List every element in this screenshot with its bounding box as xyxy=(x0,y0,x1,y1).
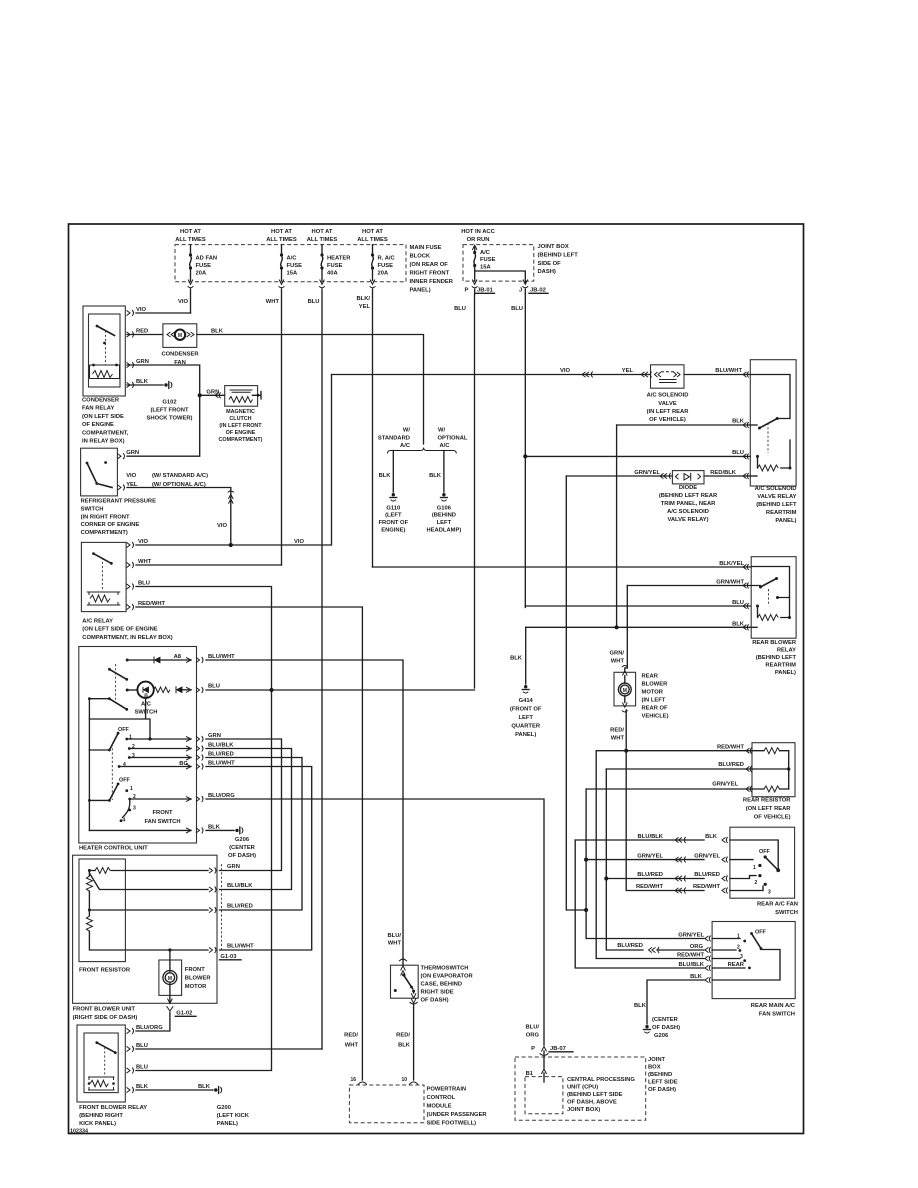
svg-text:MOTOR: MOTOR xyxy=(185,984,207,990)
svg-text:4: 4 xyxy=(123,818,126,824)
svg-text:OF DASH): OF DASH) xyxy=(652,1025,680,1031)
svg-text:BLOWER: BLOWER xyxy=(185,976,212,982)
svg-text:OFF: OFF xyxy=(759,849,770,855)
svg-text:FUSE: FUSE xyxy=(287,263,303,269)
svg-text:BLK: BLK xyxy=(136,379,149,385)
svg-text:REAR RESISTOR: REAR RESISTOR xyxy=(743,798,791,804)
svg-text:102334: 102334 xyxy=(70,1129,88,1135)
svg-text:A/C: A/C xyxy=(440,443,451,449)
svg-text:VALVE RELAY): VALVE RELAY) xyxy=(667,517,708,523)
svg-text:BLU: BLU xyxy=(138,581,150,587)
svg-text:FAN SWITCH: FAN SWITCH xyxy=(144,819,180,825)
svg-text:J: J xyxy=(519,288,522,294)
svg-text:FRONT: FRONT xyxy=(185,967,205,973)
svg-text:BLU: BLU xyxy=(308,299,320,305)
svg-text:VIO: VIO xyxy=(126,473,136,479)
svg-text:BLK/YEL: BLK/YEL xyxy=(719,561,744,567)
svg-text:JOINT BOX: JOINT BOX xyxy=(538,244,569,250)
svg-text:REAR: REAR xyxy=(728,962,745,968)
svg-text:GRN: GRN xyxy=(126,450,139,456)
svg-text:1: 1 xyxy=(130,786,133,792)
svg-text:BLK: BLK xyxy=(398,1043,411,1049)
svg-text:HOT AT: HOT AT xyxy=(180,229,201,235)
svg-text:WHT: WHT xyxy=(138,559,152,565)
svg-text:(ON EVAPORATOR: (ON EVAPORATOR xyxy=(421,974,474,980)
svg-text:G206: G206 xyxy=(654,1033,669,1039)
svg-text:ALL TIMES: ALL TIMES xyxy=(175,237,206,243)
svg-text:VIO: VIO xyxy=(138,539,148,545)
svg-text:FAN RELAY: FAN RELAY xyxy=(82,406,114,412)
svg-text:WHT: WHT xyxy=(345,1043,359,1049)
svg-text:A8: A8 xyxy=(174,654,182,660)
svg-text:FUSE: FUSE xyxy=(378,263,394,269)
svg-text:RIGHT FRONT: RIGHT FRONT xyxy=(410,271,450,277)
svg-text:(BEHIND LEFT: (BEHIND LEFT xyxy=(756,502,797,508)
svg-text:CLUTCH: CLUTCH xyxy=(229,416,251,422)
svg-text:(CENTER: (CENTER xyxy=(652,1017,679,1023)
svg-text:FRONT RESISTOR: FRONT RESISTOR xyxy=(79,968,131,974)
svg-text:GRN/YEL: GRN/YEL xyxy=(694,854,720,860)
svg-text:CORNER OF ENGINE: CORNER OF ENGINE xyxy=(81,522,140,528)
svg-text:SWITCH: SWITCH xyxy=(135,710,158,716)
svg-text:(LEFT FRONT: (LEFT FRONT xyxy=(151,408,189,414)
svg-text:15A: 15A xyxy=(287,270,298,276)
svg-text:COMPARTMENT, IN RELAY BOX): COMPARTMENT, IN RELAY BOX) xyxy=(82,635,172,641)
svg-text:(IN LEFT: (IN LEFT xyxy=(642,698,666,704)
svg-text:CONTROL: CONTROL xyxy=(427,1095,456,1101)
svg-text:VEHICLE): VEHICLE) xyxy=(642,714,669,720)
svg-text:G206: G206 xyxy=(235,837,250,843)
svg-text:SIDE FOOTWELL): SIDE FOOTWELL) xyxy=(427,1121,477,1127)
svg-text:LEFT SIDE: LEFT SIDE xyxy=(648,1080,678,1086)
svg-text:RED/WHT: RED/WHT xyxy=(636,884,664,890)
svg-text:PANEL): PANEL) xyxy=(217,1121,238,1127)
svg-text:(RIGHT SIDE OF DASH): (RIGHT SIDE OF DASH) xyxy=(73,1015,138,1021)
svg-text:FUSE: FUSE xyxy=(480,257,496,263)
svg-text:BLU: BLU xyxy=(511,306,523,312)
svg-text:WHT: WHT xyxy=(388,941,402,947)
svg-text:BLK: BLK xyxy=(136,1084,149,1090)
svg-text:R. A/C: R. A/C xyxy=(378,256,396,262)
svg-text:(BEHIND: (BEHIND xyxy=(432,513,456,519)
svg-text:BLU: BLU xyxy=(732,600,744,606)
svg-text:HOT AT: HOT AT xyxy=(271,229,292,235)
svg-text:TRIM PANEL, NEAR: TRIM PANEL, NEAR xyxy=(661,501,716,507)
svg-text:RED/WHT: RED/WHT xyxy=(693,884,721,890)
svg-text:REAR A/C FAN: REAR A/C FAN xyxy=(757,902,798,908)
svg-text:BLU/: BLU/ xyxy=(525,1025,539,1031)
svg-text:RED/: RED/ xyxy=(396,1033,410,1039)
svg-text:BOX: BOX xyxy=(648,1065,661,1071)
svg-text:QUARTER: QUARTER xyxy=(511,724,540,730)
svg-text:CENTRAL PROCESSING: CENTRAL PROCESSING xyxy=(567,1077,635,1083)
svg-text:BLU/WHT: BLU/WHT xyxy=(715,368,742,374)
svg-text:10: 10 xyxy=(401,1077,407,1083)
svg-text:BLK/: BLK/ xyxy=(356,296,370,302)
svg-text:COMPARTMENT,: COMPARTMENT, xyxy=(82,430,129,436)
svg-text:3: 3 xyxy=(132,753,135,759)
svg-text:MAIN FUSE: MAIN FUSE xyxy=(410,245,442,251)
svg-text:VALVE RELAY: VALVE RELAY xyxy=(757,494,796,500)
svg-text:(ON LEFT REAR: (ON LEFT REAR xyxy=(746,806,792,812)
svg-text:(BEHIND LEFT: (BEHIND LEFT xyxy=(756,655,797,661)
svg-text:FAN SWITCH: FAN SWITCH xyxy=(759,1012,795,1018)
svg-text:BLU/WHT: BLU/WHT xyxy=(208,761,235,767)
svg-text:IN RELAY BOX): IN RELAY BOX) xyxy=(82,439,125,445)
svg-text:BLU/BLK: BLU/BLK xyxy=(227,883,253,889)
svg-text:HOT AT: HOT AT xyxy=(312,229,333,235)
svg-text:OF VEHICLE): OF VEHICLE) xyxy=(649,417,686,423)
svg-text:PANEL): PANEL) xyxy=(515,732,536,738)
svg-text:BLU: BLU xyxy=(732,450,744,456)
svg-text:(LEFT: (LEFT xyxy=(385,513,402,519)
svg-text:BLU/RED: BLU/RED xyxy=(637,872,663,878)
svg-text:BLU/WHT: BLU/WHT xyxy=(208,654,235,660)
svg-text:GRN/YEL: GRN/YEL xyxy=(637,854,663,860)
svg-text:ALL TIMES: ALL TIMES xyxy=(307,237,338,243)
svg-text:15A: 15A xyxy=(480,265,491,271)
svg-text:GRN: GRN xyxy=(136,359,149,365)
svg-text:OF DASH): OF DASH) xyxy=(421,998,449,1004)
svg-text:HEADLAMP): HEADLAMP) xyxy=(427,528,462,534)
svg-text:DIODE: DIODE xyxy=(679,485,697,491)
svg-text:BLK: BLK xyxy=(705,834,718,840)
svg-text:G106: G106 xyxy=(437,506,452,512)
svg-text:20A: 20A xyxy=(378,270,389,276)
svg-text:A/C RELAY: A/C RELAY xyxy=(82,619,113,625)
svg-text:BLU/RED: BLU/RED xyxy=(227,904,253,910)
svg-text:OF DASH, ABOVE: OF DASH, ABOVE xyxy=(567,1100,617,1106)
svg-text:ALL TIMES: ALL TIMES xyxy=(357,237,388,243)
svg-text:ORG: ORG xyxy=(690,944,704,950)
svg-text:W/: W/ xyxy=(403,428,410,434)
svg-text:BLU/BLK: BLU/BLK xyxy=(208,743,234,749)
svg-text:MODULE: MODULE xyxy=(427,1104,452,1110)
svg-text:OFF: OFF xyxy=(118,727,129,733)
svg-text:UNIT (CPU): UNIT (CPU) xyxy=(567,1085,598,1091)
svg-text:YEL: YEL xyxy=(126,482,138,488)
svg-text:(UNDER PASSENGER: (UNDER PASSENGER xyxy=(427,1112,488,1118)
svg-text:1: 1 xyxy=(753,865,756,871)
svg-text:(BEHIND LEFT REAR: (BEHIND LEFT REAR xyxy=(659,493,718,499)
svg-text:(ON LEFT SIDE OF ENGINE: (ON LEFT SIDE OF ENGINE xyxy=(82,627,157,633)
svg-text:(W/ OPTIONAL A/C): (W/ OPTIONAL A/C) xyxy=(152,482,206,488)
svg-text:(LEFT KICK: (LEFT KICK xyxy=(217,1113,250,1119)
svg-text:YEL: YEL xyxy=(622,368,634,374)
svg-text:PANEL): PANEL) xyxy=(410,288,431,294)
svg-text:3: 3 xyxy=(768,890,771,896)
svg-text:MAGNETIC: MAGNETIC xyxy=(226,409,255,415)
svg-text:RELAY: RELAY xyxy=(777,648,796,654)
svg-text:40A: 40A xyxy=(327,270,338,276)
svg-text:(W/ STANDARD A/C): (W/ STANDARD A/C) xyxy=(152,473,208,479)
svg-text:BLU/ORG: BLU/ORG xyxy=(208,793,235,799)
svg-text:RED/BLK: RED/BLK xyxy=(710,470,737,476)
svg-text:CONDENSER: CONDENSER xyxy=(82,398,120,404)
svg-text:CONDENSER: CONDENSER xyxy=(161,352,199,358)
svg-text:(ON LEFT SIDE: (ON LEFT SIDE xyxy=(82,414,124,420)
svg-text:2: 2 xyxy=(755,880,758,886)
svg-text:2: 2 xyxy=(132,744,135,750)
svg-text:W/: W/ xyxy=(438,428,445,434)
svg-text:FRONT OF: FRONT OF xyxy=(378,520,408,526)
svg-text:JB-02: JB-02 xyxy=(530,288,546,294)
svg-text:16: 16 xyxy=(350,1077,356,1083)
svg-text:WHT: WHT xyxy=(611,659,625,665)
svg-text:M: M xyxy=(168,976,172,982)
svg-text:ALL TIMES: ALL TIMES xyxy=(266,237,297,243)
svg-text:BLU: BLU xyxy=(208,684,220,690)
svg-text:COMPARTMENT): COMPARTMENT) xyxy=(219,437,263,443)
svg-text:INNER FENDER: INNER FENDER xyxy=(410,279,454,285)
svg-text:BLK: BLK xyxy=(690,974,703,980)
svg-text:FRONT: FRONT xyxy=(153,810,173,816)
svg-text:POWERTRAIN: POWERTRAIN xyxy=(427,1087,467,1093)
svg-text:CASE, BEHIND: CASE, BEHIND xyxy=(421,982,463,988)
svg-text:HOT AT: HOT AT xyxy=(362,229,383,235)
svg-text:REARTRIM: REARTRIM xyxy=(765,663,796,669)
svg-text:GRN/: GRN/ xyxy=(610,651,625,657)
svg-text:PANEL): PANEL) xyxy=(775,670,796,676)
svg-text:YEL: YEL xyxy=(359,304,371,310)
svg-text:BLU/: BLU/ xyxy=(387,933,401,939)
svg-text:OF VEHICLE): OF VEHICLE) xyxy=(754,815,791,821)
svg-text:A/C: A/C xyxy=(287,256,298,262)
svg-text:BLK: BLK xyxy=(211,329,224,335)
svg-text:RED/WHT: RED/WHT xyxy=(717,745,745,751)
svg-text:BLK: BLK xyxy=(379,473,392,479)
svg-text:G102: G102 xyxy=(162,400,176,406)
svg-text:RED: RED xyxy=(136,329,148,335)
svg-text:BLOWER: BLOWER xyxy=(642,682,669,688)
svg-text:A/C: A/C xyxy=(400,443,411,449)
svg-text:BLU: BLU xyxy=(136,1065,148,1071)
svg-text:BLK: BLK xyxy=(208,825,221,831)
svg-text:BLU: BLU xyxy=(454,306,466,312)
svg-text:BG: BG xyxy=(179,761,188,767)
svg-text:STANDARD: STANDARD xyxy=(378,435,410,441)
svg-text:SWITCH: SWITCH xyxy=(775,910,798,916)
svg-text:BLK: BLK xyxy=(510,656,523,662)
svg-text:BLU/RED: BLU/RED xyxy=(208,752,234,758)
svg-text:FAN: FAN xyxy=(174,360,186,366)
svg-text:OPTIONAL: OPTIONAL xyxy=(438,435,468,441)
svg-text:GRN/YEL: GRN/YEL xyxy=(678,933,704,939)
svg-text:AD FAN: AD FAN xyxy=(196,256,218,262)
svg-text:REAR OF: REAR OF xyxy=(642,706,669,712)
svg-text:SHOCK TOWER): SHOCK TOWER) xyxy=(147,416,193,422)
svg-text:OF DASH): OF DASH) xyxy=(648,1087,676,1093)
svg-text:GRN/YEL: GRN/YEL xyxy=(712,782,738,788)
svg-text:BLK: BLK xyxy=(732,622,745,628)
svg-text:2: 2 xyxy=(737,945,740,951)
svg-text:M: M xyxy=(623,688,627,694)
svg-text:3: 3 xyxy=(740,954,743,960)
svg-text:BLU: BLU xyxy=(136,1043,148,1049)
svg-text:BLU/BLK: BLU/BLK xyxy=(638,834,664,840)
svg-text:OFF: OFF xyxy=(755,930,766,936)
svg-text:REFRIGERANT PRESSURE: REFRIGERANT PRESSURE xyxy=(81,499,157,505)
svg-text:OFF: OFF xyxy=(119,778,130,784)
svg-text:(FRONT OF: (FRONT OF xyxy=(510,707,542,713)
svg-text:LEFT: LEFT xyxy=(437,520,452,526)
svg-text:(IN LEFT REAR: (IN LEFT REAR xyxy=(647,409,690,415)
svg-text:1: 1 xyxy=(129,735,132,741)
svg-text:FUSE: FUSE xyxy=(327,263,343,269)
svg-text:G414: G414 xyxy=(519,698,534,704)
svg-text:3: 3 xyxy=(133,806,136,812)
svg-text:(ON REAR OF: (ON REAR OF xyxy=(410,262,449,268)
svg-text:BLU/ORG: BLU/ORG xyxy=(136,1025,163,1031)
svg-text:GRN/WHT: GRN/WHT xyxy=(716,580,744,586)
svg-text:REAR: REAR xyxy=(642,674,659,680)
svg-text:A/C SOLENOID: A/C SOLENOID xyxy=(667,509,709,515)
svg-text:COMPARTMENT): COMPARTMENT) xyxy=(81,530,128,536)
svg-text:JOINT BOX): JOINT BOX) xyxy=(567,1107,600,1113)
svg-text:THERMOSWITCH: THERMOSWITCH xyxy=(421,966,469,972)
svg-text:DASH): DASH) xyxy=(538,269,556,275)
svg-text:FRONT BLOWER UNIT: FRONT BLOWER UNIT xyxy=(73,1007,136,1013)
svg-text:GRN: GRN xyxy=(208,733,221,739)
svg-text:FRONT BLOWER RELAY: FRONT BLOWER RELAY xyxy=(79,1105,147,1111)
svg-text:A/C: A/C xyxy=(480,250,491,256)
svg-text:BLOCK: BLOCK xyxy=(410,254,431,260)
svg-text:SWITCH: SWITCH xyxy=(81,506,104,512)
svg-text:VALVE: VALVE xyxy=(658,401,677,407)
svg-text:BLU/RED: BLU/RED xyxy=(617,943,643,949)
svg-text:ENGINE): ENGINE) xyxy=(381,528,405,534)
svg-text:BLK: BLK xyxy=(198,1084,211,1090)
svg-text:(BEHIND LEFT SIDE: (BEHIND LEFT SIDE xyxy=(567,1092,623,1098)
svg-text:(IN RIGHT FRONT: (IN RIGHT FRONT xyxy=(81,514,130,520)
svg-text:4: 4 xyxy=(123,762,126,768)
svg-text:GRN: GRN xyxy=(227,864,240,870)
svg-text:P: P xyxy=(531,1046,535,1052)
svg-text:A/C: A/C xyxy=(141,702,152,708)
svg-text:G1-03: G1-03 xyxy=(220,954,237,960)
svg-text:BLU/RED: BLU/RED xyxy=(694,872,720,878)
svg-text:JB-07: JB-07 xyxy=(550,1046,566,1052)
svg-text:FUSE: FUSE xyxy=(196,263,212,269)
svg-text:20A: 20A xyxy=(196,270,207,276)
svg-text:PANEL): PANEL) xyxy=(775,518,796,524)
svg-text:OF ENGINE: OF ENGINE xyxy=(226,430,256,436)
svg-text:2: 2 xyxy=(133,794,136,800)
svg-text:VIO: VIO xyxy=(136,307,146,313)
svg-text:BLK: BLK xyxy=(634,1003,647,1009)
svg-text:(BEHIND RIGHT: (BEHIND RIGHT xyxy=(79,1113,123,1119)
svg-text:WHT: WHT xyxy=(266,299,280,305)
svg-text:BLU/BLK: BLU/BLK xyxy=(679,962,705,968)
svg-text:BLK: BLK xyxy=(429,473,442,479)
svg-text:HEATER CONTROL UNIT: HEATER CONTROL UNIT xyxy=(79,846,148,852)
svg-text:BLK: BLK xyxy=(732,419,745,425)
svg-text:RIGHT SIDE: RIGHT SIDE xyxy=(421,990,454,996)
svg-text:G1-02: G1-02 xyxy=(176,1011,192,1017)
svg-text:OF ENGINE: OF ENGINE xyxy=(82,422,114,428)
svg-text:M: M xyxy=(178,333,182,339)
svg-text:(CENTER: (CENTER xyxy=(229,845,256,851)
svg-text:G200: G200 xyxy=(217,1105,231,1111)
svg-text:RED/: RED/ xyxy=(344,1033,358,1039)
svg-text:GRN: GRN xyxy=(206,390,219,396)
svg-text:(IN LEFT FRONT: (IN LEFT FRONT xyxy=(219,423,262,429)
svg-text:VIO: VIO xyxy=(294,539,304,545)
svg-text:RED/WHT: RED/WHT xyxy=(677,953,705,959)
svg-text:(BEHIND LEFT: (BEHIND LEFT xyxy=(538,253,579,259)
svg-text:OR RUN: OR RUN xyxy=(467,237,490,243)
svg-text:KICK PANEL): KICK PANEL) xyxy=(79,1121,116,1127)
svg-text:1: 1 xyxy=(737,934,740,940)
svg-text:MOTOR: MOTOR xyxy=(642,690,664,696)
svg-text:VIO: VIO xyxy=(217,523,227,529)
svg-text:HOT IN ACC: HOT IN ACC xyxy=(461,229,495,235)
svg-text:OF DASH): OF DASH) xyxy=(228,853,256,859)
svg-text:JOINT: JOINT xyxy=(648,1057,666,1063)
svg-text:P: P xyxy=(465,288,469,294)
svg-text:GRN/YEL: GRN/YEL xyxy=(634,470,660,476)
svg-text:WHT: WHT xyxy=(611,736,625,742)
svg-text:RED/: RED/ xyxy=(610,728,624,734)
svg-text:BLU/RED: BLU/RED xyxy=(718,762,744,768)
svg-text:REAR BLOWER: REAR BLOWER xyxy=(752,640,797,646)
svg-text:ORG: ORG xyxy=(526,1033,540,1039)
svg-text:BLU/WHT: BLU/WHT xyxy=(227,944,254,950)
svg-text:(BEHIND: (BEHIND xyxy=(648,1072,672,1078)
svg-text:VIO: VIO xyxy=(560,368,570,374)
svg-text:B1: B1 xyxy=(526,1071,534,1077)
svg-text:REARTRIM: REARTRIM xyxy=(766,510,797,516)
svg-text:G110: G110 xyxy=(386,506,400,512)
svg-text:A/C SOLENOID: A/C SOLENOID xyxy=(755,486,797,492)
svg-text:A/C SOLENOID: A/C SOLENOID xyxy=(647,393,689,399)
svg-text:JB-01: JB-01 xyxy=(477,288,494,294)
svg-text:HEATER: HEATER xyxy=(327,256,351,262)
svg-text:SIDE OF: SIDE OF xyxy=(538,261,562,267)
svg-text:REAR MAIN A/C: REAR MAIN A/C xyxy=(751,1003,796,1009)
svg-text:RED/WHT: RED/WHT xyxy=(138,601,166,607)
svg-text:LEFT: LEFT xyxy=(518,715,533,721)
svg-text:VIO: VIO xyxy=(178,299,188,305)
